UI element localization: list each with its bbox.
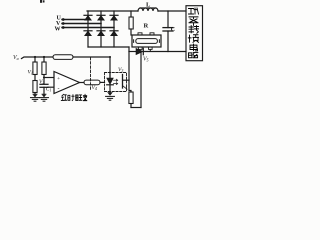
char dian: [190, 44, 198, 51]
wire: bridge leg 3 vertical: [113, 11, 115, 47]
wire: diode line left segment: [129, 51, 136, 53]
dashed partition line: [90, 58, 92, 91]
diode VD4 (bottom, leg1): [84, 31, 92, 36]
wire: op-amp output: [80, 82, 85, 84]
optocoupler LED V3: [107, 72, 114, 95]
wire: top DC rail right of inductor: [158, 10, 186, 12]
capacitor C1: [40, 84, 48, 96]
svg-text:V1: V1: [28, 70, 33, 76]
wire: bottom return: [131, 107, 141, 109]
relay module box KM: [132, 33, 161, 52]
char zhuan: [189, 26, 199, 34]
inductor L: [138, 8, 158, 11]
wire: op-amp + input: [43, 76, 55, 78]
resistor R3 (divider top, x=35): [33, 57, 37, 75]
char yan: [61, 94, 66, 100]
wire: phase U input: [62, 18, 88, 21]
resistor R1 (charge resistor, vertical): [129, 11, 133, 35]
diode VD6 (bottom, leg3): [110, 31, 118, 36]
svg-text:V3: V3: [118, 67, 123, 73]
optocoupler dashed box: [105, 73, 127, 92]
label: delay trigger (pseudo CJK glyphs): [61, 94, 87, 100]
wire: bridge leg 2 vertical: [100, 11, 102, 47]
phototransistor V3b: [123, 75, 130, 90]
wire: to optocoupler LED: [100, 81, 105, 83]
char fa: [83, 94, 87, 100]
light arrows: [114, 79, 118, 84]
diode V5: [136, 48, 143, 54]
wire: phase V input: [62, 22, 101, 25]
wire: top DC rail left of inductor: [87, 10, 138, 12]
wire: phase W input: [62, 26, 114, 29]
ground under R4: [31, 94, 40, 101]
svg-text:R: R: [144, 23, 149, 30]
label: vertical text "power conversion circuit" (pseudo CJK glyphs): [188, 8, 198, 58]
diode VD3 (top, leg3): [110, 15, 118, 20]
svg-text:-: -: [58, 86, 60, 92]
wire: right return rail: [140, 52, 142, 108]
char chu: [76, 95, 82, 101]
svg-text:V4: V4: [92, 85, 97, 91]
wire: emitter down: [129, 80, 131, 92]
char shi: [68, 95, 74, 101]
resistor R6 (output series): [84, 80, 100, 85]
diode VD1 (top, leg1): [84, 15, 92, 20]
ground under LED: [106, 93, 115, 101]
resistor R5 (divider top, x=44): [42, 57, 46, 84]
resistor R4 (divider bottom, x=35): [33, 75, 37, 97]
junction node dots on Va line: [34, 56, 111, 58]
top page artifact mark: [40, 0, 45, 3]
svg-text:L: L: [146, 2, 151, 9]
capacitor C: [163, 11, 173, 52]
power conversion circuit box: [186, 6, 203, 61]
op-amp U1 (comparator): [54, 72, 80, 94]
char huan: [188, 35, 198, 43]
wire: Va supply line: [22, 57, 111, 59]
resistor R7 (emitter): [129, 92, 133, 108]
resistor R2 (series, horizontal): [53, 55, 73, 60]
wire: drop to optocoupler: [109, 57, 111, 78]
svg-text:+: +: [57, 76, 60, 82]
wire: bottom DC rail to power box: [143, 51, 186, 53]
svg-text:W: W: [55, 27, 61, 33]
wire: jog down to diode line: [128, 47, 130, 52]
wire: bridge leg 1 vertical: [87, 11, 89, 47]
svg-text:C: C: [171, 27, 175, 33]
wire: collector to diode line: [128, 52, 130, 81]
ground under C1: [40, 94, 49, 101]
wire: op-amp - input: [48, 86, 55, 88]
char lu: [189, 53, 198, 58]
svg-text:Va: Va: [13, 55, 19, 61]
diode VD5 (bottom, leg2): [97, 31, 105, 36]
wire: bottom DC rail from bridge: [88, 46, 129, 48]
char lv: [189, 17, 198, 25]
char gong: [189, 8, 199, 14]
diode VD2 (top, leg2): [97, 15, 105, 20]
svg-text:V5: V5: [143, 57, 149, 63]
